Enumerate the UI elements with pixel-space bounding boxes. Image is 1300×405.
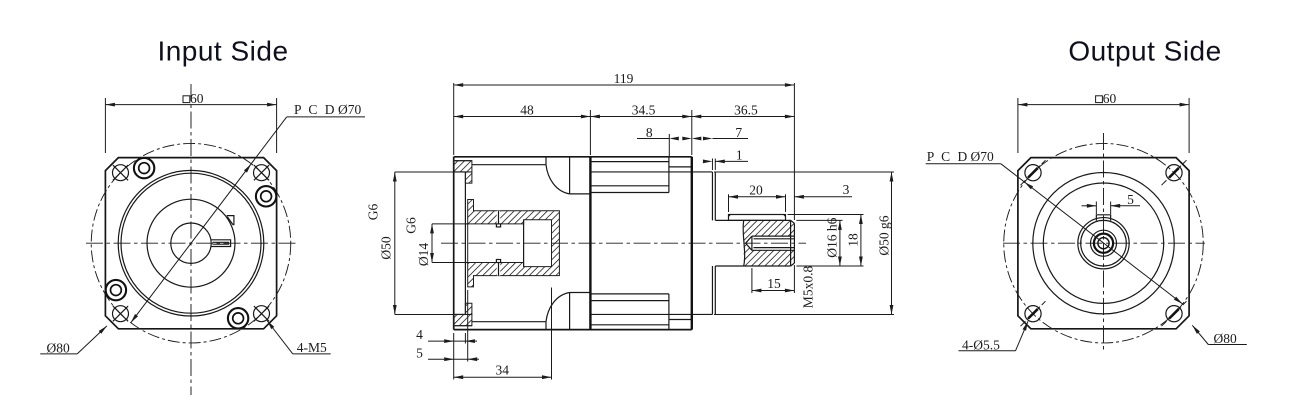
output center tap M5	[1094, 234, 1113, 253]
dimension Ø16 h6	[796, 219, 842, 221]
clamp slit	[497, 211, 501, 224]
output bolt hole Ø5.5 at (1033,313.7)	[1025, 306, 1041, 322]
svg-text:Ø50 g6: Ø50 g6	[876, 215, 891, 255]
svg-text:20: 20	[749, 183, 763, 198]
dimension Ø80 output	[1208, 344, 1247, 346]
svg-text:P C D: P C D	[927, 149, 970, 164]
dimension square60 output	[1017, 98, 1019, 153]
svg-text:119: 119	[614, 71, 634, 86]
input pilot circle inner	[121, 173, 261, 313]
front ring chamfer bottom	[669, 319, 692, 321]
svg-text:Output Side: Output Side	[1068, 36, 1221, 67]
bore top to recess	[465, 223, 467, 225]
dimension 18	[788, 214, 864, 216]
output horizontal centerline	[1003, 242, 1205, 244]
flange section hatch bottom	[454, 314, 472, 325]
body top edge	[454, 156, 692, 158]
output shaft chamfer circle	[1091, 230, 1117, 256]
flange section hatch top	[454, 161, 472, 172]
svg-text:18: 18	[845, 233, 860, 247]
dimension 34.5	[691, 110, 693, 155]
input through hole at (115.9,290.1)	[106, 280, 126, 300]
dimension 7	[712, 138, 748, 140]
body top chamfer line	[472, 164, 546, 166]
body bottom chamfer line	[472, 321, 546, 323]
output boss Ø50	[692, 171, 713, 173]
input pilot boss circle outer	[118, 170, 264, 316]
input PCD Ø70 bolt circle (dash-dot)	[91, 143, 291, 343]
svg-text:Ø14: Ø14	[416, 243, 431, 266]
dimension 4-Ø5.5 output	[959, 350, 1016, 352]
svg-text:60: 60	[190, 91, 204, 106]
input keyway slot	[211, 240, 230, 247]
svg-text:M5x0.8: M5x0.8	[801, 266, 816, 309]
svg-text:Input Side: Input Side	[157, 36, 288, 67]
input set screw notch	[227, 216, 234, 226]
svg-text:34.5: 34.5	[632, 103, 656, 118]
svg-text:G6: G6	[404, 217, 419, 234]
dimension 5	[467, 290, 469, 362]
svg-text:5: 5	[1127, 192, 1134, 207]
key on shaft	[729, 215, 786, 221]
svg-text:60: 60	[1103, 91, 1117, 106]
input through hole at (238.1,318.3)	[228, 308, 248, 328]
svg-text:4: 4	[416, 327, 423, 342]
input hub circle	[147, 199, 235, 287]
output bolt hole Ø5.5 at (1174,172.7)	[1166, 165, 1182, 181]
svg-text:4-M5: 4-M5	[297, 340, 327, 355]
bore bottom to recess	[465, 262, 467, 264]
svg-text:4-Ø5.5: 4-Ø5.5	[962, 337, 1000, 352]
output key circle Ø18	[1078, 218, 1129, 269]
svg-text:Ø80: Ø80	[47, 341, 70, 356]
svg-text:3: 3	[843, 182, 850, 197]
dimension 4	[453, 333, 455, 380]
svg-text:G6: G6	[366, 204, 381, 221]
neck taper top	[545, 157, 547, 165]
dimension 48	[589, 110, 591, 155]
input vertical centerline	[190, 84, 192, 395]
svg-text:36.5: 36.5	[734, 103, 758, 118]
dimension 36.5	[692, 116, 795, 118]
input horizontal centerline	[86, 242, 297, 244]
recess top edge	[454, 171, 466, 173]
output flange square outline	[1018, 158, 1189, 329]
input shaft bore Ø14	[171, 223, 211, 263]
dimension 1	[711, 159, 713, 171]
input cup section (hatched)	[468, 200, 560, 287]
bore step face	[523, 220, 525, 267]
neck taper bottom	[545, 322, 547, 330]
input through hole at (266.1,196.3)	[256, 186, 276, 206]
recess floor line	[464, 172, 466, 315]
shaft broken-out section hatch	[744, 220, 795, 243]
input M5 tapped hole at (261.5,172.7)	[254, 165, 270, 181]
output shaft circle Ø16	[1081, 220, 1127, 266]
dimension 34	[551, 288, 553, 380]
dimension PCD Ø70 input	[131, 117, 287, 323]
dimension Ø80 input	[40, 353, 77, 355]
svg-text:8: 8	[646, 125, 653, 140]
front ring chamfer top	[669, 166, 692, 168]
dimension PCD Ø70 output	[926, 163, 1001, 165]
input flange square outline	[105, 158, 276, 329]
dimension 20 (key)	[728, 194, 730, 212]
svg-text:5: 5	[416, 345, 423, 360]
output bolt hole Ø5.5 at (1033,172.7)	[1025, 165, 1041, 181]
output PCD Ø70 bolt circle	[1004, 143, 1204, 343]
dimension 15 (tap depth)	[751, 268, 753, 293]
flange hatch step top	[465, 172, 472, 183]
output vertical centerline	[1103, 133, 1105, 352]
svg-text:34: 34	[496, 363, 510, 378]
svg-text:15: 15	[767, 276, 781, 291]
input M5 tapped hole at (120.5,313.7)	[113, 306, 129, 322]
dimension square60 input	[104, 98, 106, 153]
svg-text:Ø16 h6: Ø16 h6	[824, 217, 839, 257]
flange top chamfer line	[454, 160, 472, 162]
recess bottom edge	[454, 313, 466, 315]
dimension Ø14 G6 bore	[431, 224, 433, 263]
svg-text:Ø80: Ø80	[1214, 331, 1237, 346]
input M5 tapped hole at (261.5,313.7)	[254, 306, 270, 322]
input through hole at (144.1,168.1)	[134, 158, 154, 178]
dimension Ø50 G6 recess	[394, 172, 396, 315]
output shaft Ø16	[715, 219, 790, 221]
dimension 119	[453, 83, 455, 155]
dimension 5 keyway output	[1095, 202, 1097, 215]
svg-text:Ø70: Ø70	[338, 102, 361, 117]
flange left face	[453, 157, 455, 330]
flange hatch step bottom	[465, 303, 472, 314]
side view centerline	[441, 242, 806, 244]
dimension 8	[668, 134, 670, 156]
output ring circle	[1043, 183, 1163, 303]
dimension 4-M5 input	[293, 353, 331, 355]
ring gear section	[589, 157, 591, 330]
M5 tap hole	[752, 235, 795, 237]
input M5 tapped hole at (120.5,172.7)	[113, 165, 129, 181]
svg-text:48: 48	[520, 103, 534, 118]
dimension Ø50 g6	[714, 171, 894, 173]
output keyway slot	[1096, 215, 1110, 221]
svg-text:Ø50: Ø50	[379, 236, 394, 259]
output housing face	[691, 157, 693, 330]
svg-text:Ø70: Ø70	[971, 149, 994, 164]
dimension 3	[794, 196, 852, 198]
output boss circle Ø50	[1033, 173, 1174, 314]
break line	[743, 220, 745, 266]
body bottom edge	[454, 329, 692, 331]
flange bottom chamfer line	[454, 325, 472, 327]
svg-text:P C D: P C D	[294, 102, 337, 117]
svg-text:7: 7	[735, 125, 742, 140]
output bolt hole Ø5.5 at (1174,313.7)	[1166, 306, 1182, 322]
svg-text:1: 1	[736, 148, 743, 163]
